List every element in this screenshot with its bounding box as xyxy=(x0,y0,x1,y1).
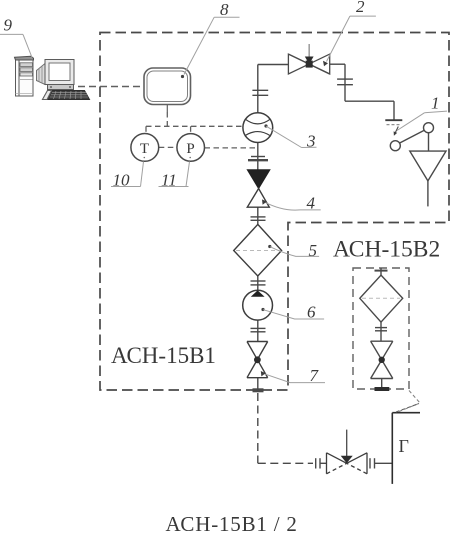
svg-text:1: 1 xyxy=(431,94,440,113)
svg-text:8: 8 xyxy=(220,0,229,19)
svg-text:4: 4 xyxy=(307,194,316,213)
svg-text:5: 5 xyxy=(309,241,318,260)
svg-text:АСН-15В1 / 2: АСН-15В1 / 2 xyxy=(166,512,298,536)
svg-text:11: 11 xyxy=(161,171,177,190)
svg-text:АСН-15В2: АСН-15В2 xyxy=(333,237,440,263)
svg-text:P: P xyxy=(186,141,194,157)
svg-text:3: 3 xyxy=(306,132,316,151)
svg-text:9: 9 xyxy=(4,16,13,35)
svg-text:АСН-15В1: АСН-15В1 xyxy=(111,343,216,368)
svg-text:6: 6 xyxy=(307,303,316,322)
svg-text:T: T xyxy=(140,141,149,157)
svg-text:2: 2 xyxy=(356,0,365,16)
svg-text:Г: Г xyxy=(399,436,409,456)
svg-text:10: 10 xyxy=(113,171,131,190)
